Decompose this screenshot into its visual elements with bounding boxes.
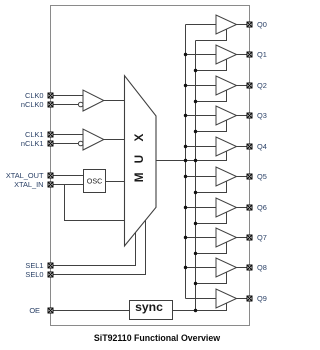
svg-text:OE: OE <box>29 306 40 315</box>
svg-text:nCLK0: nCLK0 <box>21 100 44 109</box>
wire Q2 buffer to pin <box>237 85 248 87</box>
pin Q2 <box>247 81 267 90</box>
wire Q5 buffer to pin <box>237 176 248 178</box>
buffer Q0 output <box>216 15 237 34</box>
inversion bubble nCLK0 <box>78 102 83 107</box>
wire Q0 buffer to pin <box>237 24 248 26</box>
svg-text:XTAL_IN: XTAL_IN <box>14 180 43 189</box>
pin SEL0 <box>25 270 53 279</box>
svg-text:Q2: Q2 <box>257 81 267 90</box>
junction clock rail mux output <box>184 159 187 162</box>
svg-text:Q0: Q0 <box>257 20 267 29</box>
buffer U1 CLK0/nCLK0 input <box>83 90 104 111</box>
wire XTAL_IN bypass to MUX <box>65 185 125 221</box>
junction clock rail Q8 <box>184 266 187 269</box>
pin Q5 <box>247 172 267 181</box>
svg-text:Q6: Q6 <box>257 203 267 212</box>
wire CLK0 input <box>51 95 84 97</box>
pin XTAL_OUT <box>6 171 53 180</box>
sync box <box>130 300 173 320</box>
inversion bubble nCLK1 <box>78 141 83 146</box>
buffer U2 CLK1/nCLK1 input <box>83 129 104 150</box>
wire sync rail to Q6 buffer enable <box>196 212 227 224</box>
wire nCLK1 input <box>51 143 79 145</box>
junction clock rail Q4 <box>184 145 187 148</box>
buffer Q9 output <box>216 289 237 308</box>
svg-text:M: M <box>132 172 146 182</box>
buffer Q3 output <box>216 106 237 125</box>
pin Q4 <box>247 142 267 151</box>
wire XTAL_IN to OSC <box>51 184 84 186</box>
junction sync rail Q7 enable <box>194 252 197 255</box>
pin Q6 <box>247 203 267 212</box>
wire sync rail to Q5 buffer enable <box>196 181 227 193</box>
buffer Q8 output <box>216 258 237 277</box>
pin Q1 <box>247 50 267 59</box>
pin Q0 <box>247 20 267 29</box>
wire Q9 buffer to pin <box>237 298 248 300</box>
wire rail to Q5 buffer input <box>186 176 217 178</box>
wire rail to Q7 buffer input <box>186 237 217 239</box>
wire Q8 buffer to pin <box>237 267 248 269</box>
wire rail to Q4 buffer input <box>186 146 217 148</box>
wire nCLK0 input <box>51 104 79 106</box>
wire sync rail to Q1 buffer enable <box>196 59 227 71</box>
junction clock rail Q1 <box>184 53 187 56</box>
wire Q6 buffer to pin <box>237 207 248 209</box>
buffer Q5 output <box>216 167 237 186</box>
wire Q3 buffer to pin <box>237 115 248 117</box>
svg-text:sync: sync <box>135 300 163 314</box>
junction clock rail Q6 <box>184 206 187 209</box>
svg-text:OSC: OSC <box>87 177 103 186</box>
svg-text:CLK0: CLK0 <box>25 91 44 100</box>
wire CLK0 buffer to MUX <box>104 100 125 102</box>
wire Q4 buffer to pin <box>237 146 248 148</box>
wire CLK1 input <box>51 134 84 136</box>
junction clock rail Q3 <box>184 114 187 117</box>
pin CLK0 <box>25 91 53 100</box>
svg-text:SEL1: SEL1 <box>25 261 43 270</box>
svg-text:Q7: Q7 <box>257 233 267 242</box>
junction sync rail Q3 enable <box>194 130 197 133</box>
wire MUX output to rails and Q4 enable <box>156 151 227 161</box>
junction clock rail Q2 <box>184 84 187 87</box>
junction sync rail Q2 enable <box>194 100 197 103</box>
junction sync rail Q1 enable <box>194 69 197 72</box>
svg-text:Q5: Q5 <box>257 172 267 181</box>
wire SEL1 to MUX <box>51 233 136 266</box>
pin OE <box>29 306 53 315</box>
junction sync rail mux row <box>194 159 197 162</box>
wire CLK1 buffer to MUX <box>104 139 125 141</box>
wire rail to Q0 buffer input <box>186 24 217 26</box>
svg-text:SiT92110 Functional Overview: SiT92110 Functional Overview <box>94 333 220 343</box>
svg-text:X: X <box>132 134 146 142</box>
wire Q1 buffer to pin <box>237 54 248 56</box>
wire OE to sync <box>51 310 130 312</box>
buffer Q7 output <box>216 228 237 247</box>
wire SEL0 to MUX <box>51 220 146 274</box>
wire sync rail to Q3 buffer enable <box>196 120 227 132</box>
junction sync rail Q5 enable <box>194 191 197 194</box>
junction clock rail Q7 <box>184 236 187 239</box>
pin Q3 <box>247 111 267 120</box>
buffer Q6 output <box>216 198 237 217</box>
pin nCLK0 <box>21 100 53 109</box>
svg-text:Q4: Q4 <box>257 142 267 151</box>
svg-text:Q1: Q1 <box>257 50 267 59</box>
wire sync rail to Q7 buffer enable <box>196 242 227 254</box>
junction sync rail sync output <box>194 309 197 312</box>
pin Q7 <box>247 233 267 242</box>
wire rail to Q9 buffer input <box>186 298 217 300</box>
chip outline box <box>51 6 250 326</box>
buffer Q4 output <box>216 137 237 156</box>
wire rail to Q6 buffer input <box>186 207 217 209</box>
pin SEL1 <box>25 261 53 270</box>
junction clock rail Q5 <box>184 175 187 178</box>
svg-text:U: U <box>132 155 146 164</box>
buffer Q1 output <box>216 45 237 64</box>
wire rail to Q2 buffer input <box>186 85 217 87</box>
pin nCLK1 <box>21 139 53 148</box>
wire sync output to rail and Q9 enable <box>173 303 227 311</box>
wire clock distribution rail <box>185 25 187 299</box>
svg-text:XTAL_OUT: XTAL_OUT <box>6 171 44 180</box>
pin XTAL_IN <box>14 180 53 189</box>
wire sync distribution rail <box>195 41 197 311</box>
svg-text:Q8: Q8 <box>257 263 267 272</box>
wire Q7 buffer to pin <box>237 237 248 239</box>
wire rail to Q1 buffer input <box>186 54 217 56</box>
wire sync rail to Q2 buffer enable <box>196 90 227 102</box>
svg-text:CLK1: CLK1 <box>25 130 44 139</box>
junction sync rail Q8 enable <box>194 282 197 285</box>
pin Q8 <box>247 263 267 272</box>
buffer Q2 output <box>216 76 237 95</box>
svg-text:nCLK1: nCLK1 <box>21 139 44 148</box>
svg-text:Q9: Q9 <box>257 294 267 303</box>
junction sync rail Q6 enable <box>194 222 197 225</box>
wire rail to Q3 buffer input <box>186 115 217 117</box>
svg-text:Q3: Q3 <box>257 111 267 120</box>
wire sync rail to Q0 buffer enable <box>196 29 227 41</box>
pin CLK1 <box>25 130 53 139</box>
svg-text:SEL0: SEL0 <box>25 270 43 279</box>
wire rail to Q8 buffer input <box>186 267 217 269</box>
wire XTAL_OUT to OSC <box>51 175 84 177</box>
pin Q9 <box>247 294 267 303</box>
wire OSC to MUX <box>106 181 125 183</box>
oscillator OSC box <box>84 170 106 193</box>
wire sync rail to Q8 buffer enable <box>196 272 227 284</box>
mux MUX <box>125 76 157 246</box>
